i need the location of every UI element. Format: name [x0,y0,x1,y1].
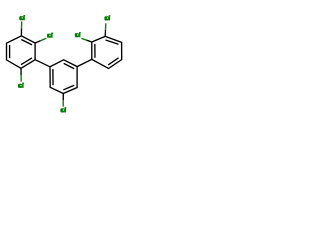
ring C (central) inner double-bond line LL-UL [52,69,54,85]
ring C (central) inner double-bond line T-UR [64,63,75,68]
ring B (right) inner double-bond line LL-UL [94,44,96,58]
ring A (left) inner double-bond line T-UR [21,40,32,45]
ring B (right) inner double-bond line LR-B [108,58,118,65]
C-Cl bond (ring A upper-right): black half [35,41,41,43]
Cl atom label (ring A upper-right) [47,33,53,38]
C-Cl bond (ring C bottom): black half [62,94,64,101]
biphenyl single bond ring A to ring C [35,60,50,67]
C-Cl bond (ring A bottom): black half [20,68,22,75]
C-Cl bond (ring A upper-right): green half [41,38,47,40]
C-Cl bond (ring A top): green half [21,21,23,28]
C-Cl bond (ring B upper-left): green half [81,38,86,40]
ring B (right) inner double-bond line T-UR [106,40,119,44]
C-Cl bond (ring B top): green half [105,23,107,30]
C-Cl bond (ring C bottom): green half [62,100,64,107]
ring C (central) inner double-bond line LR-B [63,85,74,90]
C-Cl bond (ring A top): black half [20,29,22,36]
Cl atom label (ring A bottom) [18,83,24,88]
benzene ring C (central) outline [50,60,77,94]
benzene ring A (left) outline [7,36,36,68]
chemical structure diagram: hexachloro-m-terphenyl [0,0,130,130]
C-Cl bond (ring A bottom): green half [20,75,22,82]
Cl atom label (ring B top) [104,15,110,20]
C-Cl bond (ring B top): black half [104,30,106,37]
ring A (left) inner double-bond line LR-B [21,58,32,65]
ring A (left) inner double-bond line LL-UL [9,45,11,58]
Cl atom label (ring B upper-left) [75,32,81,37]
C-Cl bond (ring B upper-left): black half [87,40,92,42]
biphenyl single bond ring C to ring B [77,59,92,66]
benzene ring B (right) outline [92,36,122,68]
Cl atom label (ring C bottom) [60,107,66,112]
Cl atom label (ring A top) [19,15,25,20]
